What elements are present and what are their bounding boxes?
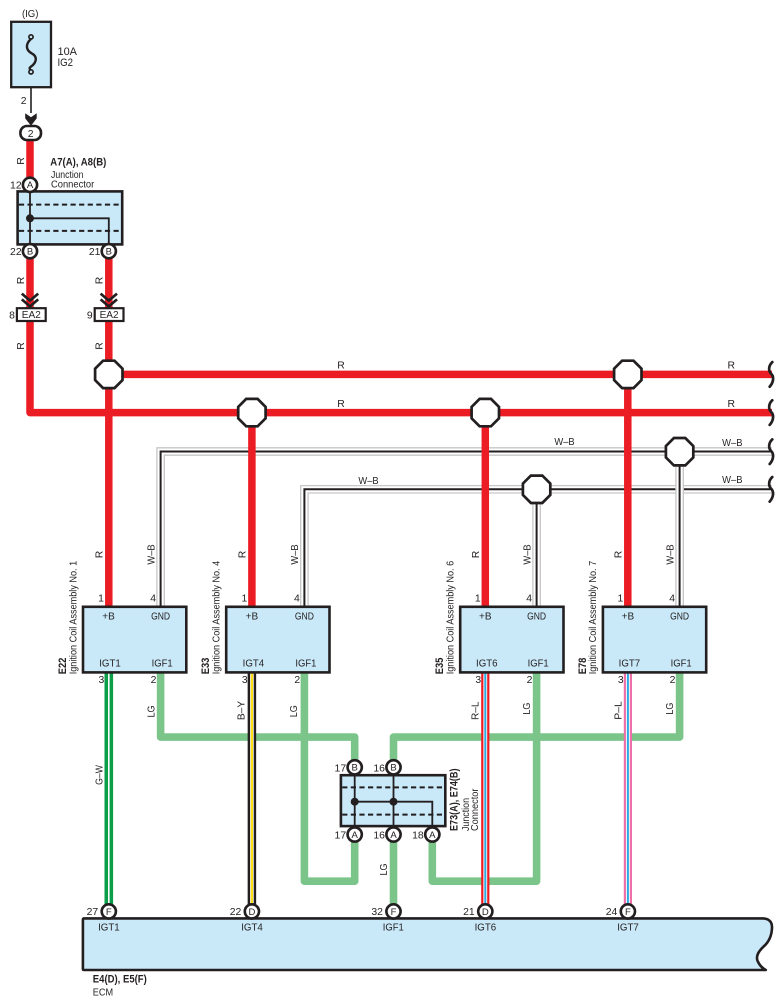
svg-text:F: F (106, 907, 112, 918)
svg-text:1: 1 (618, 594, 624, 605)
svg-text:R: R (16, 342, 27, 350)
svg-text:E73(A), E74(B): E73(A), E74(B) (448, 768, 460, 831)
svg-text:IGF1: IGF1 (383, 922, 404, 933)
svg-text:4: 4 (526, 594, 532, 605)
arrow connector (25, 113, 37, 126)
svg-text:32: 32 (371, 907, 383, 918)
svg-text:E4(D), E5(F): E4(D), E5(F) (93, 974, 147, 986)
ignition coil E78 (603, 607, 706, 673)
ECM pin 21D IGT6 (478, 904, 492, 918)
svg-text:A: A (390, 830, 397, 841)
svg-text:10A: 10A (58, 46, 78, 58)
svg-text:LG: LG (522, 703, 533, 715)
ECM pin 27F IGT1 (102, 904, 116, 918)
svg-text:3: 3 (618, 675, 624, 686)
svg-text:EA2: EA2 (22, 310, 41, 321)
svg-text:21: 21 (463, 907, 475, 918)
ground chevron EA2 left (22, 294, 38, 310)
svg-text:R: R (727, 360, 735, 371)
ground EA2 box 9 (95, 308, 124, 321)
svg-text:Connector: Connector (470, 788, 481, 831)
svg-text:IGT6: IGT6 (476, 658, 498, 669)
svg-text:B: B (106, 247, 112, 258)
svg-text:B: B (27, 247, 33, 258)
pin A (18) (425, 827, 439, 841)
node W-B line2 / E35 GND (523, 476, 550, 503)
svg-text:+B: +B (102, 612, 115, 623)
svg-text:F: F (391, 907, 397, 918)
svg-text:Ignition Coil Assembly No. 1: Ignition Coil Assembly No. 1 (68, 561, 79, 675)
svg-text:GND: GND (670, 612, 689, 623)
svg-text:W–B: W–B (665, 544, 676, 564)
ECM pin 24F IGT7 (621, 904, 635, 918)
wire R node to E33 +B (248, 413, 256, 609)
svg-text:2: 2 (527, 675, 533, 686)
pin B (16) (386, 760, 400, 774)
svg-text:+B: +B (246, 612, 259, 623)
svg-text:R: R (95, 342, 106, 350)
wire R junction B22 to EA2 (26, 258, 34, 310)
svg-text:D: D (482, 907, 489, 918)
svg-text:2: 2 (21, 96, 27, 107)
svg-text:GND: GND (151, 612, 170, 623)
svg-text:R: R (337, 360, 345, 371)
svg-text:17: 17 (335, 763, 347, 774)
svg-text:4: 4 (150, 594, 156, 605)
wire P-L E78 IGT7 to ECM pin 24F (624, 671, 632, 905)
svg-text:P–L: P–L (614, 701, 625, 720)
svg-text:LG: LG (379, 864, 390, 876)
svg-text:22: 22 (10, 247, 22, 258)
svg-text:E33: E33 (200, 658, 212, 675)
ignition coil E35 (460, 607, 563, 673)
svg-text:1: 1 (98, 594, 104, 605)
pin B (22) (23, 244, 37, 258)
node W-B line1 / E78 GND (666, 438, 693, 465)
wire W-B bus from E33 GND to right edge (304, 489, 772, 609)
svg-text:+B: +B (479, 612, 492, 623)
wire G-W E22 IGT1 to ECM pin 27F (105, 671, 114, 905)
svg-text:3: 3 (475, 675, 481, 686)
continuation break R line1 (769, 362, 773, 387)
wire LG E33 IGF1 to junction pin A17 (304, 671, 354, 881)
wire fuse output (30, 87, 32, 113)
svg-text:2: 2 (294, 675, 300, 686)
svg-text:W–B: W–B (290, 544, 301, 564)
ECM box E4(D), E5(F) (83, 918, 772, 970)
svg-text:8: 8 (9, 310, 15, 321)
node R line1 / E22 feed (95, 361, 122, 388)
svg-text:IG2: IG2 (58, 57, 74, 69)
svg-text:3: 3 (99, 675, 105, 686)
svg-text:LG: LG (289, 705, 300, 717)
svg-text:IGF1: IGF1 (295, 658, 316, 669)
svg-text:27: 27 (87, 907, 99, 918)
svg-text:Ignition Coil Assembly No. 7: Ignition Coil Assembly No. 7 (588, 561, 599, 675)
wire R node to E78 +B (624, 374, 632, 609)
svg-text:D: D (248, 907, 255, 918)
svg-text:IGT4: IGT4 (241, 922, 263, 933)
svg-text:4: 4 (669, 594, 675, 605)
continuation break R line2 (769, 400, 773, 425)
pin A (16) (386, 827, 400, 841)
svg-text:B: B (352, 763, 358, 774)
svg-text:16: 16 (373, 831, 385, 842)
svg-text:F: F (625, 907, 631, 918)
wire R node to E35 +B (482, 413, 490, 609)
pin A (12) (23, 178, 37, 192)
svg-text:IGF1: IGF1 (671, 658, 692, 669)
svg-text:A7(A), A8(B): A7(A), A8(B) (50, 157, 106, 169)
svg-text:+B: +B (622, 612, 635, 623)
svg-text:Ignition Coil Assembly No. 4: Ignition Coil Assembly No. 4 (212, 561, 223, 675)
junction connector A7(A), A8(B) (18, 191, 123, 244)
svg-text:17: 17 (335, 831, 347, 842)
svg-text:R: R (337, 399, 345, 410)
svg-text:IGT1: IGT1 (98, 922, 120, 933)
ECM pin 22D IGT4 (245, 904, 259, 918)
wire LG E78 IGF1 to junction pin B16 (394, 671, 680, 760)
wire R right EA2 down to E22 +B (105, 320, 113, 609)
svg-text:W–B: W–B (722, 475, 742, 486)
wire W-B vertical from node to E78 GND (crosses lower W-B bus) (675, 452, 684, 609)
svg-text:LG: LG (665, 703, 676, 715)
svg-text:E78: E78 (577, 658, 589, 675)
svg-text:EA2: EA2 (100, 310, 119, 321)
pin B (21) (102, 244, 116, 258)
svg-text:R: R (95, 276, 106, 284)
svg-text:LG: LG (146, 706, 157, 718)
wire LG junction pin A16 to ECM pin 32F (390, 841, 398, 905)
svg-text:2: 2 (28, 129, 34, 140)
svg-text:IGF1: IGF1 (528, 658, 549, 669)
ignition coil E33 (226, 607, 329, 673)
svg-text:B: B (390, 763, 396, 774)
wire LG E35 IGF1 to junction pin A18 (432, 671, 536, 881)
continuation break W-B line1 (769, 439, 773, 464)
ellipse connector 2 (20, 126, 41, 140)
svg-text:1: 1 (242, 594, 248, 605)
wire R bus line 2 from left EA2 (30, 320, 772, 413)
svg-text:9: 9 (87, 310, 93, 321)
svg-text:16: 16 (373, 763, 385, 774)
svg-text:IGT7: IGT7 (617, 922, 639, 933)
svg-text:22: 22 (230, 907, 242, 918)
wire R fuse to junction A (26, 140, 34, 180)
wire R bus line 1 (109, 371, 772, 379)
svg-text:R: R (16, 276, 27, 284)
pin B (17) (348, 760, 362, 774)
svg-text:G–W: G–W (94, 765, 105, 785)
wire R-L E35 IGT6 to ECM pin 21D (481, 671, 489, 905)
svg-text:W–B: W–B (722, 438, 742, 449)
svg-text:GND: GND (295, 612, 314, 623)
node R line1 / E78 feed (614, 361, 641, 388)
ignition coil E22 (83, 607, 186, 673)
wire R junction B21 to EA2 (105, 258, 113, 310)
svg-text:R: R (471, 550, 482, 558)
svg-text:R–L: R–L (470, 701, 481, 720)
svg-text:A: A (429, 830, 436, 841)
svg-text:IGT4: IGT4 (243, 658, 265, 669)
wire B-Y E33 IGT4 to ECM pin 22D (248, 671, 257, 905)
svg-text:2: 2 (670, 675, 676, 686)
svg-text:ECM: ECM (93, 987, 113, 998)
svg-text:R: R (16, 157, 27, 165)
svg-text:GND: GND (527, 612, 546, 623)
svg-text:IGT1: IGT1 (99, 658, 121, 669)
svg-text:IGT6: IGT6 (475, 922, 497, 933)
svg-text:A: A (27, 180, 34, 191)
ground EA2 box 8 (17, 308, 46, 321)
svg-text:2: 2 (151, 675, 157, 686)
svg-text:W–B: W–B (358, 476, 378, 487)
wire LG E22 IGF1 to junction pin B17 (161, 671, 355, 760)
svg-text:E22: E22 (57, 658, 69, 675)
node R line2 / E33 feed (238, 399, 265, 426)
svg-text:R: R (94, 550, 105, 558)
svg-text:IGF1: IGF1 (152, 658, 173, 669)
ground chevron EA2 right (101, 294, 117, 310)
svg-text:18: 18 (412, 831, 424, 842)
svg-text:24: 24 (606, 907, 618, 918)
svg-text:E35: E35 (434, 658, 446, 675)
fuse 10A IG2 (11, 22, 51, 87)
node R line2 / E35 feed (472, 399, 499, 426)
svg-text:IGT7: IGT7 (619, 658, 641, 669)
junction connector E73(A), E74(B) (341, 775, 445, 826)
wire W-B vertical from node to E35 GND (532, 489, 541, 609)
svg-text:W–B: W–B (146, 544, 157, 564)
svg-text:21: 21 (89, 247, 101, 258)
svg-text:A: A (352, 830, 359, 841)
svg-text:Ignition Coil Assembly No. 6: Ignition Coil Assembly No. 6 (446, 561, 457, 675)
svg-text:W–B: W–B (522, 544, 533, 564)
pin A (17) (348, 827, 362, 841)
svg-text:4: 4 (294, 594, 300, 605)
svg-text:Connector: Connector (51, 180, 95, 191)
svg-text:3: 3 (242, 675, 248, 686)
svg-text:(IG): (IG) (22, 9, 39, 20)
svg-text:R: R (238, 550, 249, 558)
wire W-B bus from E22 GND to right edge (161, 452, 772, 610)
ECM pin 32F IGF1 (386, 904, 400, 918)
svg-text:W–B: W–B (554, 437, 574, 448)
svg-text:R: R (727, 399, 735, 410)
continuation break W-B line2 (769, 477, 773, 502)
svg-text:R: R (614, 550, 625, 558)
svg-text:1: 1 (475, 594, 481, 605)
svg-text:12: 12 (10, 181, 22, 192)
svg-text:B–Y: B–Y (236, 701, 247, 720)
